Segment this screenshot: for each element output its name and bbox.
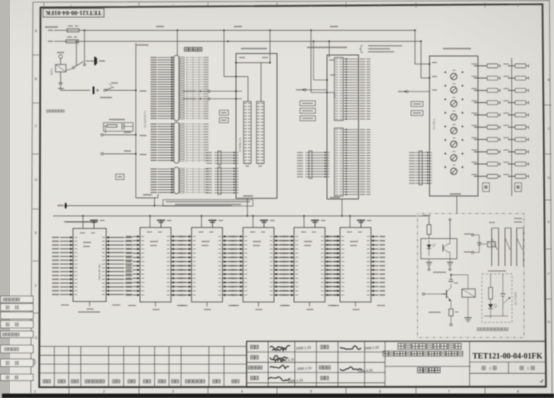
module KR1 top stubs: [82, 216, 84, 229]
signature chief: [270, 365, 289, 368]
module KR6 top pin labels: [347, 232, 352, 233]
module KR2 GB capacitor: [157, 219, 165, 221]
resistor R12: [450, 301, 452, 309]
U2 bottom stub: [341, 199, 343, 216]
capacitor C2 black: [93, 87, 95, 95]
wire bus to R11: [428, 216, 430, 225]
U1 stub cluster upper: [206, 152, 212, 153]
signature process: [340, 346, 361, 350]
module KR6 right pins: [371, 236, 379, 238]
module KR5 corner labels: [282, 305, 290, 306]
module KR5 right pins: [325, 236, 333, 238]
U1 inner connector 2: [257, 102, 265, 164]
module KR5 top stubs: [303, 216, 305, 228]
module KR3 center label: [202, 241, 210, 242]
svg-text:D: D: [35, 178, 38, 182]
attachment box sign: [1, 359, 34, 367]
caption under opto: [433, 272, 446, 273]
bus A ground wire: [66, 205, 232, 207]
svg-text:4: 4: [241, 390, 243, 394]
signature design: [270, 346, 290, 349]
RC snubber box: [104, 123, 134, 132]
module KR4 top pin labels: [250, 232, 255, 233]
U2 bottom label: [330, 197, 340, 198]
bus L1 labels: [156, 26, 164, 27]
top margin zone numbers: [70, 4, 519, 8]
module KR5 top pin labels: [301, 232, 306, 233]
U1 bottom stub: [246, 198, 248, 216]
bottom margin zone numbers: [34, 387, 519, 393]
small box SetE: [411, 111, 423, 116]
connector XS1 pins section C: [158, 168, 174, 170]
module KR1 right pins: [106, 236, 124, 238]
module KR5 bottom stub: [309, 302, 311, 307]
caption above U2: [307, 47, 347, 48]
U3 bottom stub: [456, 196, 458, 214]
module KR1 corner labels: [61, 304, 69, 305]
label interference suppressor: [47, 110, 65, 113]
wire drop from L2 to switch: [75, 41, 77, 66]
ground symbol G1: [428, 259, 430, 262]
revision table grid: [39, 346, 247, 386]
wire L2 drop to U3: [420, 41, 422, 78]
caption solenoid circuit: [477, 328, 508, 331]
module KR6 center label: [350, 241, 358, 242]
fuse F1: [67, 29, 79, 32]
label process: [321, 345, 329, 349]
connector XS1 pin table C verticals: [187, 168, 205, 193]
module KR5 left pins: [287, 236, 295, 238]
caption above U1: [241, 48, 267, 49]
scan shading top: [10, 0, 554, 60]
connector XS1 body2: [174, 122, 179, 163]
wire connector-group bottom: [136, 197, 158, 199]
contact S2: [104, 89, 106, 91]
inner LED D2: [488, 304, 493, 309]
module KR3 left pins: [184, 236, 192, 238]
svg-text:3: 3: [172, 390, 174, 394]
attachment box date: [1, 374, 34, 380]
connector XS1 body3: [174, 167, 179, 194]
module KR6 corner labels: [328, 305, 336, 306]
module KR1 GB capacitor: [90, 219, 98, 221]
sheet total: [482, 366, 485, 369]
signature review: [268, 377, 290, 381]
title block grid: [247, 341, 546, 387]
right resistor column: [511, 58, 513, 196]
wire drop L1 to XS1: [176, 30, 178, 55]
connector XS1 pins section B: [158, 123, 174, 125]
module KR3 top pin labels: [199, 232, 204, 233]
relay module KR3 box: [192, 228, 223, 303]
vertical collector wire: [135, 43, 137, 198]
caption channel signals: [184, 47, 202, 51]
module U2 box: [327, 55, 359, 199]
inner box bottom wire: [484, 315, 508, 317]
module KR2 top stubs: [149, 216, 151, 228]
revision header labels group 2: [143, 380, 150, 383]
caption text under U1: [166, 201, 250, 202]
label review: [251, 376, 259, 380]
wire RL2 up: [467, 275, 469, 289]
lamp module U3 box: [430, 56, 479, 196]
module KR1 bottom caption: [78, 311, 100, 312]
module KR2 left pins: [133, 236, 141, 238]
scan bottom edge: [2, 394, 554, 398]
fuse F2: [66, 40, 79, 43]
wire Q2 collector junction: [450, 275, 452, 278]
attachment box old base no: [1, 331, 34, 338]
capacitor C5: [477, 242, 481, 244]
attachment box borrow record: [1, 296, 34, 303]
relay coil RL1: [479, 243, 487, 245]
relay module KR5 box: [294, 228, 325, 303]
caption 24V line supply: [66, 221, 92, 222]
module KR4 top stubs: [252, 216, 254, 228]
wire stub U2 left: [313, 41, 315, 80]
module KR3 top stubs: [201, 216, 203, 228]
label above inner box: [488, 270, 506, 271]
terminal JD2: [101, 153, 103, 155]
signature check: [270, 356, 288, 360]
relay module KR2 box: [140, 228, 171, 303]
module KR3 bottom stub: [206, 302, 208, 307]
module KR3 right pins: [223, 236, 231, 238]
wire AC input 1: [48, 30, 53, 31]
scan shading right: [440, 0, 554, 394]
U3 rotated tag 2: [515, 183, 522, 192]
DC input arrow row 1: [183, 91, 196, 92]
junction dots bus ends: [414, 29, 416, 31]
net label 13a: [137, 44, 149, 45]
wire drops into U2: [310, 30, 312, 92]
left margin zone letters: [33, 29, 41, 340]
terminal CN3 lower: [464, 251, 471, 252]
module KR6 left pins: [333, 236, 341, 238]
small box Set2: [219, 118, 228, 123]
capacitor C6 above Q2: [450, 284, 452, 288]
wire into U2 from L2: [328, 41, 330, 57]
relay module KR4 box: [243, 228, 274, 303]
connector XS1 pin table B verticals: [187, 123, 205, 163]
small box SetC: [300, 116, 315, 121]
terminal Q2 base: [422, 293, 424, 295]
wire S2 to vertical: [106, 89, 136, 91]
relay module KR6 box: [340, 228, 371, 303]
connector XS1 body: [174, 55, 179, 121]
caption above U3: [443, 48, 471, 49]
connector XS1 pin table A verticals: [187, 57, 205, 120]
inner capacitor C7: [500, 293, 505, 295]
wire to capacitor C1: [86, 60, 95, 62]
wire into U1 from L1 a: [223, 30, 225, 76]
module KR2 center label: [150, 241, 158, 242]
snubber resistor R: [107, 125, 117, 128]
label standardization: [319, 366, 330, 369]
svg-text:24-4509(+15): 24-4509(+15): [239, 137, 242, 152]
U2 stub cluster: [297, 152, 303, 153]
contact pair CP1: [491, 228, 493, 266]
wire into U1 from L1 b: [269, 29, 271, 31]
inner dashed box: [482, 274, 512, 323]
svg-text:2: 2: [103, 390, 105, 394]
U2 pin labels top: [329, 59, 334, 60]
transistor Q2: [442, 293, 447, 295]
snubber label: [109, 119, 125, 120]
module U1 box: [236, 54, 277, 199]
module KR6 top stubs: [349, 216, 351, 228]
terminal QB: [59, 55, 63, 59]
small box Set XS1: [116, 174, 125, 179]
module KR1 left pins: [60, 236, 73, 238]
svg-text:1: 1: [34, 390, 36, 394]
U3 rotated tag 1: [483, 183, 490, 192]
module KR1 top pin labels: [80, 232, 85, 233]
relay RL2 box: [462, 289, 475, 297]
bus A GB symbol: [58, 205, 64, 207]
title block outer: [247, 341, 546, 387]
module KR5 center label: [304, 241, 312, 242]
DC input arrow row 2: [183, 98, 196, 99]
small mark bottom right: [540, 380, 543, 383]
indicator lamps HL1-HL8: [444, 70, 463, 80]
contact pair CP2: [504, 228, 506, 266]
module KR1 center label: [83, 242, 91, 243]
module KR4 center label: [253, 241, 261, 242]
wire relay to contact S2: [60, 86, 62, 90]
svg-text:DA-43(P5,W-41): DA-43(P5,W-41): [144, 110, 147, 128]
caption under Q2: [429, 312, 441, 313]
capacitor C1 black: [94, 57, 96, 65]
label power section: [45, 26, 58, 27]
lamp resistors R group: [472, 64, 501, 68]
module KR6 bottom stub: [355, 302, 357, 307]
ground G3: [467, 297, 469, 317]
terminal JD1: [101, 134, 103, 136]
U2 inner connector lower: [334, 128, 343, 196]
sheet number: [520, 366, 523, 369]
svg-text:G: G: [35, 336, 38, 340]
DC arrow into U2: [296, 89, 304, 90]
wire bus L2: [79, 40, 422, 42]
module KR4 right pins: [274, 236, 282, 238]
rotated drawing number box: [43, 9, 104, 18]
label 24V supply: [64, 221, 98, 222]
svg-text:5: 5: [310, 390, 312, 394]
U1 bottom connector label: [243, 195, 253, 196]
module KR4 corner labels: [231, 305, 239, 306]
wire AC input 2: [48, 41, 53, 42]
label +TA: [423, 215, 431, 216]
caption box under U1: [163, 200, 253, 206]
U1 top pin labels: [239, 57, 245, 58]
module KR2 right pins: [171, 236, 179, 238]
snubber capacitor: [121, 123, 123, 129]
attachment spine mark: [34, 359, 35, 365]
attachment box base no: [1, 345, 34, 353]
module KR4 bottom stub: [258, 302, 260, 307]
U1 inner connector 1: [244, 102, 252, 164]
svg-text:CN-470(+): CN-470(+): [433, 119, 436, 130]
optocoupler phototransistor Q1: [443, 244, 448, 248]
module KR3 corner labels: [180, 305, 188, 306]
company name line 2: [383, 351, 463, 356]
connector XS1 pins section A: [158, 57, 174, 59]
module KR6 GB capacitor: [357, 219, 365, 221]
module KR4 GB capacitor: [260, 219, 268, 221]
DC arrow into U3: [398, 91, 406, 92]
small box SetB: [300, 108, 315, 113]
module KR1 bottom stub: [89, 302, 91, 307]
optocoupler U4 box: [421, 239, 457, 259]
inner resistor R13: [490, 274, 492, 287]
relay module KR1 box: [73, 228, 106, 301]
small box Set1: [219, 110, 228, 115]
U1 stub cluster lower: [206, 168, 212, 169]
label chief design: [248, 366, 262, 369]
top margin zone ticks: [44, 3, 485, 8]
attachment box tracing check: [1, 321, 34, 328]
revision header labels group 1: [43, 380, 50, 383]
company name line 1: [398, 343, 461, 349]
module KR2 top pin labels: [147, 232, 152, 233]
module KR2 corner labels: [128, 305, 136, 306]
svg-text:6: 6: [379, 390, 381, 394]
resistor R11: [427, 225, 431, 235]
small box SetA: [300, 101, 315, 106]
net label Ba_CAB: [143, 194, 152, 195]
attachment box blank 1: [1, 312, 34, 319]
signature design 2: [272, 349, 286, 351]
module KR3 GB capacitor: [209, 219, 217, 221]
U2 inner connector upper: [334, 58, 343, 121]
terminal CN3 upper: [464, 233, 471, 234]
svg-text:YWL41/4P+5Ra: YWL41/4P+5Ra: [100, 263, 102, 280]
relay K1 coil: [56, 65, 67, 72]
wire bus L1: [79, 29, 415, 31]
attachment box tracing: [1, 304, 34, 311]
inner diagonal arrows: [504, 298, 510, 304]
contact pair CP3: [516, 228, 518, 266]
bus B main: [53, 215, 428, 217]
wire drop from L1 to switch: [84, 30, 86, 63]
svg-text:C: C: [35, 124, 38, 128]
wire collector up: [449, 221, 451, 239]
wire vertical CN3: [478, 235, 480, 253]
U3 left pin cluster: [409, 152, 415, 153]
relay K1 lower pin: [60, 72, 62, 83]
brace labels right of U2: [360, 46, 362, 53]
right margin zone letters: [544, 78, 552, 324]
module KR4 left pins: [236, 236, 244, 238]
U3 bottom label: [450, 193, 461, 194]
module KR5 GB capacitor: [311, 219, 319, 221]
ground symbol G2: [449, 259, 451, 262]
label switch: [100, 97, 112, 98]
optocoupler LED: [428, 240, 430, 244]
contact S1: [72, 67, 74, 69]
dashed enclosure box: [418, 214, 525, 338]
small box SetD: [411, 102, 423, 107]
label approve: [321, 376, 329, 380]
project name: [418, 368, 441, 373]
module KR2 bottom stub: [155, 302, 157, 307]
wire XS1 bottom to bus A: [154, 198, 156, 206]
label design: [251, 345, 259, 349]
label check: [251, 356, 259, 360]
svg-text:(M7C): (M7C): [51, 68, 54, 75]
wire L1 drop to U3: [414, 30, 416, 64]
signature standardization: [340, 367, 362, 371]
